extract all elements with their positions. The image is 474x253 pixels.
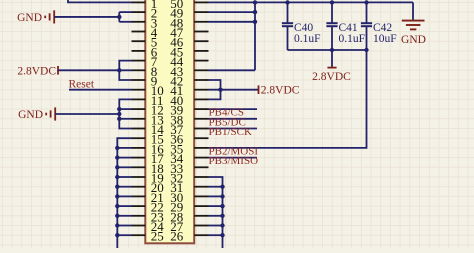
svg-text:0.1uF: 0.1uF — [339, 33, 366, 45]
wire to pin 30 — [209, 195, 223, 197]
ground symbol GND (upper left) — [17, 10, 54, 23]
junction pin 17 — [115, 155, 119, 159]
svg-text:GND: GND — [18, 109, 43, 121]
wire to pin 29 — [209, 205, 223, 207]
left pin stubs (pins 1-25) — [132, 2, 146, 235]
junction pin 8 / 2.8VDC — [117, 68, 121, 72]
svg-text:PB3/MISO: PB3/MISO — [209, 155, 259, 167]
GND rail: wire pin 50 to ground (top right) — [209, 1, 414, 3]
wire GND to pins 2,3 junction — [54, 16, 119, 18]
wire pin 11 down to pin 14 — [119, 99, 131, 128]
junction pin 12 — [117, 107, 121, 111]
junction pin 21 — [115, 194, 119, 198]
wire to pin 23 — [117, 215, 131, 217]
svg-text:2.8VDC: 2.8VDC — [261, 85, 300, 97]
wire to pin 49 — [209, 11, 256, 13]
junction pin 48 — [253, 20, 257, 24]
svg-text:GND: GND — [17, 12, 42, 24]
wire pin 7 down to pin 9 — [119, 61, 131, 80]
wire pin 35 (PB2/MOSI) to C42 riser — [209, 50, 367, 148]
junction pin 30 — [220, 194, 224, 198]
junction pin 18 — [115, 165, 119, 169]
capacitor C40 0.1uF — [282, 2, 321, 50]
junction C42 bottom / MOSI riser — [364, 48, 368, 52]
wire pin 38 (PB5/DC) — [209, 118, 258, 120]
wire to pin 24 — [117, 225, 131, 227]
svg-text:10uF: 10uF — [373, 33, 397, 45]
wire pin 1 to top (cropped) — [68, 0, 132, 2]
junction pin 20 — [115, 185, 119, 189]
bottom rail joining capacitor lower plates — [288, 49, 367, 51]
wire to pin 21 — [117, 195, 131, 197]
svg-text:2.8VDC: 2.8VDC — [17, 65, 56, 77]
junction pin 26 — [220, 233, 224, 237]
junction rail/vertical — [253, 0, 257, 4]
wire 2.8VDC to pin 8 — [58, 69, 132, 71]
wire GND to pins 11-14 group — [55, 113, 119, 115]
pin numbers 50-26 (right column) — [170, 0, 184, 244]
junction C41 bottom — [330, 48, 334, 52]
svg-text:PB1/SCK: PB1/SCK — [209, 126, 252, 138]
junction pin 23 — [115, 214, 119, 218]
capacitor C42 10uF — [361, 2, 397, 50]
ground symbol GND (lower left) — [18, 107, 55, 121]
wire to pin 27 — [209, 225, 223, 227]
wire to pin 13 — [119, 118, 131, 120]
wire pin 34 (PB3/MISO) — [209, 157, 258, 159]
wire to pin 19 — [117, 176, 131, 178]
svg-text:GND: GND — [401, 34, 426, 46]
wire to pin 3 — [119, 21, 131, 23]
IC body (50-pin connector, pins 1-25 left / 50-26 right) — [145, 0, 194, 243]
capacitor C41 0.1uF — [326, 2, 365, 50]
power port 2.8VDC (below C41) — [312, 50, 351, 83]
vertical wire joining pins 2 and 3 — [118, 12, 120, 22]
svg-text:2.8VDC: 2.8VDC — [312, 71, 351, 83]
junction pin 29 — [220, 204, 224, 208]
junction pin 24 — [115, 223, 119, 227]
wire to pin 18 — [117, 166, 131, 168]
svg-text:0.1uF: 0.1uF — [294, 33, 321, 45]
junction pin 49 — [253, 10, 257, 14]
junction C42 top on GND rail — [364, 0, 368, 4]
vertical wire joining pins 49,48,43 to GND rail — [254, 2, 256, 70]
wire to pin 48 — [209, 21, 256, 23]
power port 2.8VDC (left) — [17, 65, 58, 77]
wire pin 39 (PB4/CS) — [209, 108, 258, 110]
wire pin 37 (PB1/SCK) — [209, 128, 258, 130]
right bus: wire pin 32 down past bottom edge — [209, 177, 223, 249]
junction pin 19 — [115, 175, 119, 179]
junction pin 28 — [220, 214, 224, 218]
wire to pin 26 — [209, 234, 223, 236]
wire to pin 28 — [209, 215, 223, 217]
wire to pin 17 — [117, 157, 131, 159]
wire to pin 2 — [119, 11, 131, 13]
junction pin 25 — [115, 233, 119, 237]
junction pin 22 — [115, 204, 119, 208]
wire pin 42 down to pin 40 — [209, 80, 221, 99]
junction pin 13 — [117, 117, 121, 121]
power port 2.8VDC (right) — [259, 85, 300, 97]
wire to pin 25 — [117, 234, 131, 236]
junction GND/pins 2-3 — [117, 15, 121, 19]
svg-text:25: 25 — [151, 229, 164, 244]
junction C41 top on GND rail — [330, 0, 334, 4]
junction pin 16 — [115, 146, 119, 150]
junction GND tee — [117, 112, 121, 116]
wire Reset to pin 10 — [69, 89, 132, 91]
junction C40 top on GND rail — [285, 0, 289, 4]
junction pin 31 — [220, 185, 224, 189]
left bus: wire pin 15 down past bottom edge — [117, 138, 131, 249]
svg-text:26: 26 — [170, 229, 184, 244]
right pin stubs (pins 50-26) — [194, 2, 208, 235]
wire to pin 16 — [117, 147, 131, 149]
junction pin 27 — [220, 223, 224, 227]
wire to pin 22 — [117, 205, 131, 207]
earth ground symbol GND (top right) — [401, 2, 426, 46]
pin numbers 1-25 (left column) — [151, 0, 165, 244]
wire to pin 12 — [119, 108, 131, 110]
wire pin 41 to 2.8VDC port — [209, 89, 259, 91]
junction pin 41 — [218, 88, 222, 92]
wire to pin 20 — [117, 186, 131, 188]
wire to pin 43 — [209, 69, 256, 71]
wire to pin 31 — [209, 186, 223, 188]
